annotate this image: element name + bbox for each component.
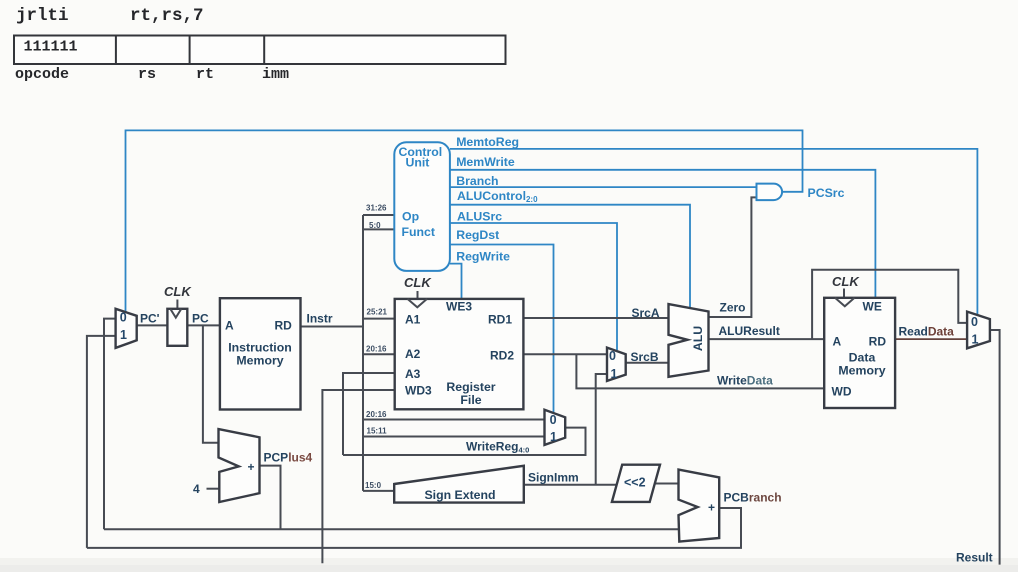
wire rt tap 20:16 to WriteReg mux input 0 [363,419,545,421]
wire PC' [137,324,168,326]
ALU [669,304,709,377]
wire CLK tick data memory [843,289,845,298]
svg-text:5:0: 5:0 [369,221,381,230]
svg-text:RegWrite: RegWrite [456,250,510,264]
svg-text:PC: PC [192,312,209,326]
svg-text:1: 1 [972,333,979,347]
svg-text:WE3: WE3 [446,300,472,314]
mux PC source (0/1) [116,309,137,348]
svg-text:PCBranch: PCBranch [724,491,782,505]
svg-text:rt,rs,7: rt,rs,7 [130,6,204,26]
wire PCPlus4 adder output [260,466,281,530]
wire WriteReg riser to A3 [343,373,395,455]
wire SrcA (RD1 to ALU) [523,317,668,319]
svg-text:SrcB: SrcB [631,350,659,364]
wire ALUResult bypass over Data Memory to result mux input 0 [812,270,967,339]
svg-text:PCSrc: PCSrc [808,186,845,200]
sign extend block [394,466,524,503]
svg-text:0: 0 [971,315,978,329]
svg-text:1: 1 [550,430,557,444]
svg-text:imm: imm [262,66,289,83]
svg-text:20:16: 20:16 [366,345,387,354]
AND gate PCSrc [757,184,783,201]
svg-text:CLK: CLK [404,275,432,290]
wire SignImm [524,484,617,486]
svg-text:Instruction: Instruction [228,341,292,355]
svg-text:PC': PC' [140,312,160,326]
svg-text:Funct: Funct [402,225,435,239]
svg-text:RD: RD [869,335,887,349]
wire instr bus vertical [362,215,364,491]
svg-text:WE: WE [863,300,882,314]
wire WD3 riser from Result line [322,390,394,563]
wire A1 input [363,318,395,320]
svg-text:PCPlus4: PCPlus4 [264,451,313,465]
register file block [395,299,524,409]
svg-text:rs: rs [138,66,156,83]
svg-text:+: + [708,501,715,515]
wire PC [187,324,220,326]
svg-text:File: File [460,393,481,407]
wire ALUResult to Data Memory A [709,338,825,340]
wire Funct input [363,228,396,230]
svg-text:Unit: Unit [406,156,430,170]
svg-text:A3: A3 [405,367,421,381]
wire constant 4 input [207,488,219,490]
wire SignImm riser to SrcB mux input 1 [596,374,607,485]
svg-text:Register: Register [446,380,495,394]
adder PCBranch [679,470,720,542]
svg-text:Op: Op [402,210,419,224]
wire A2 input [363,353,395,355]
svg-text:CLK: CLK [164,284,192,299]
wire PCPlus4 riser to PC mux input 0 [104,319,116,530]
wire WriteData [576,354,824,388]
svg-text:A2: A2 [405,347,421,361]
svg-text:Result: Result [956,551,993,565]
svg-text:A: A [225,319,234,333]
svg-text:1: 1 [120,328,127,342]
svg-text:SrcA: SrcA [632,306,660,320]
wire Op input [363,214,396,216]
wire Zero to AND gate [709,197,758,317]
wire Instr [301,326,364,328]
shifter <<2 [612,465,660,502]
mux SrcB (0/1) [607,348,626,382]
svg-text:RegDst: RegDst [456,228,499,242]
svg-text:Zero: Zero [720,301,746,315]
data memory block [824,298,895,408]
svg-text:jrlti: jrlti [16,6,69,26]
svg-text:A1: A1 [405,313,421,327]
svg-text:<<2: <<2 [624,476,646,490]
svg-text:MemWrite: MemWrite [456,155,515,169]
mux WriteReg (0/1) [545,410,566,445]
svg-text:CLK: CLK [832,274,860,289]
control unit [394,142,450,271]
wire ALUControl [450,205,690,309]
svg-text:+: + [248,460,255,474]
svg-text:1: 1 [611,367,618,381]
svg-text:15:11: 15:11 [367,427,388,436]
instruction text jrlti rt,rs,7 [16,6,204,26]
wire Result from mux output down right edge [990,330,1000,565]
wire WriteReg mux output loop [343,428,586,455]
wire shift left 2 output to PCBranch adder [655,483,679,485]
svg-text:25:21: 25:21 [367,308,388,317]
wire rd tap 15:11 to WriteReg mux input 1 [363,436,545,438]
svg-text:RD: RD [275,319,293,333]
wire PCPlus4 bottom line [104,528,679,530]
wire PCSrc (AND gate output wrapping to PC mux select) [126,130,803,313]
svg-text:A: A [833,335,842,349]
svg-text:111111: 111111 [24,39,78,56]
svg-text:0: 0 [609,349,616,363]
svg-text:15:0: 15:0 [365,481,382,490]
svg-text:SignImm: SignImm [528,471,579,485]
wire PCBranch adder output loop [87,508,741,548]
svg-text:ALU: ALU [691,326,705,351]
svg-text:Instr: Instr [307,312,333,326]
svg-text:rt: rt [196,66,214,83]
svg-text:4: 4 [193,482,200,496]
svg-text:Memory: Memory [236,354,283,368]
instruction memory block [220,298,301,409]
svg-text:20:16: 20:16 [366,410,387,419]
wire PC to PCPlus4 adder [203,325,219,442]
wire CLK tick PC register [176,300,178,309]
svg-text:opcode: opcode [15,66,69,83]
svg-text:ALUResult: ALUResult [719,324,780,338]
wire ALUSrc [450,223,617,350]
svg-text:RD2: RD2 [490,349,514,363]
svg-text:RD1: RD1 [488,313,512,327]
wire RegDst [450,245,554,413]
wire ReadData [895,338,967,340]
svg-text:ALUControl2:0: ALUControl2:0 [457,189,538,204]
wire RD2 to SrcB mux [523,353,607,355]
mux MemtoReg result (0/1) [967,312,990,349]
wire RegWrite [450,264,462,300]
instruction format box [14,36,506,65]
svg-text:MemtoReg: MemtoReg [456,135,519,149]
wire PCBranch riser to PC mux input 1 [87,336,116,548]
wire CLK tick register file [417,291,419,298]
svg-text:31:26: 31:26 [366,204,387,213]
register PC (flip-flop) [167,309,187,346]
svg-text:ReadData: ReadData [899,325,955,339]
svg-text:0: 0 [120,310,127,324]
svg-text:Data: Data [849,351,876,365]
svg-text:0: 0 [550,413,557,427]
svg-text:WriteData: WriteData [717,374,773,388]
svg-text:Branch: Branch [456,174,498,188]
wire MemWrite [450,170,875,298]
svg-text:Sign Extend: Sign Extend [424,488,495,502]
svg-text:Memory: Memory [838,364,885,378]
wire Branch [450,186,757,188]
svg-text:WD: WD [832,385,852,399]
svg-text:WD3: WD3 [405,384,432,398]
adder PCPlus4 [219,429,260,502]
wire 15:0 to Sign Extend [363,490,394,492]
svg-text:ALUSrc: ALUSrc [457,210,502,224]
wire SrcB mux output to ALU [626,362,669,364]
wire MemtoReg [450,149,977,314]
